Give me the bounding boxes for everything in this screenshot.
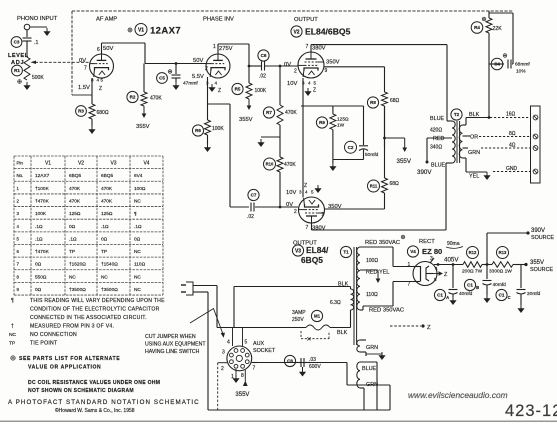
svg-text:BLK: BLK xyxy=(338,282,349,288)
svg-text:SOCKET: SOCKET xyxy=(253,348,276,354)
svg-text:.03: .03 xyxy=(309,357,316,363)
svg-text:3AMP: 3AMP xyxy=(292,310,306,316)
svg-text:420Ω: 420Ω xyxy=(430,128,442,134)
svg-text:†1620Ω: †1620Ω xyxy=(69,262,86,268)
svg-text:Z: Z xyxy=(99,86,102,92)
svg-text:AUX: AUX xyxy=(253,341,264,347)
svg-text:DC COIL RESISTANCE VALUES: DC COIL RESISTANCE VALUES UNDER ONE OHM xyxy=(28,380,160,386)
svg-text:CONNECTED IN THE ASSOCIATED CI: CONNECTED IN THE ASSOCIATED CIRCUIT. xyxy=(30,315,147,321)
svg-text:100Ω: 100Ω xyxy=(366,258,378,264)
svg-text:100K: 100K xyxy=(255,88,267,94)
svg-text:No.: No. xyxy=(17,173,24,178)
svg-text:2: 2 xyxy=(221,366,224,372)
svg-text:50V: 50V xyxy=(103,46,113,52)
svg-text:NC: NC xyxy=(69,274,76,280)
svg-text:EZ 80: EZ 80 xyxy=(422,247,442,256)
svg-text:10V: 10V xyxy=(287,81,297,87)
svg-text:TP: TP xyxy=(101,249,107,255)
svg-text:16Ω: 16Ω xyxy=(506,112,516,118)
svg-text:6BQ5: 6BQ5 xyxy=(101,173,114,179)
svg-text:R3: R3 xyxy=(78,109,84,114)
svg-text:©Howard W. Sams & Co., Inc. 19: ©Howard W. Sams & Co., Inc. 1958 xyxy=(55,407,135,414)
svg-text:355V: 355V xyxy=(239,117,253,123)
svg-text:B: B xyxy=(476,285,479,290)
svg-text:68Ω: 68Ω xyxy=(390,181,400,187)
svg-text:4: 4 xyxy=(305,190,308,195)
svg-text:22K: 22K xyxy=(493,26,503,32)
svg-text:20mfd: 20mfd xyxy=(527,291,541,297)
svg-text:OR: OR xyxy=(470,135,478,141)
svg-text:7: 7 xyxy=(253,366,256,372)
svg-text:C6: C6 xyxy=(261,53,267,58)
svg-text:Z: Z xyxy=(427,325,431,331)
svg-text:470K: 470K xyxy=(101,186,113,192)
svg-text:8Ω: 8Ω xyxy=(509,131,516,137)
svg-text:90ma: 90ma xyxy=(447,241,460,247)
svg-text:423-12: 423-12 xyxy=(505,402,557,420)
svg-text:0Ω: 0Ω xyxy=(35,287,42,293)
svg-text:NC: NC xyxy=(101,274,108,280)
svg-text:.1Ω: .1Ω xyxy=(69,236,77,242)
svg-text:BLUE: BLUE xyxy=(430,116,444,122)
svg-text:†470K: †470K xyxy=(35,199,50,205)
svg-text:10V: 10V xyxy=(286,190,296,196)
svg-text:†: † xyxy=(11,324,14,330)
svg-text:CONDITION OF THE ELECTROLYTIC: CONDITION OF THE ELECTROLYTIC CAPACITOR xyxy=(30,307,160,313)
svg-text:✕: ✕ xyxy=(307,336,312,343)
svg-text:100K: 100K xyxy=(212,126,224,132)
svg-text:GRN: GRN xyxy=(468,150,480,156)
svg-text:¶: ¶ xyxy=(11,298,14,304)
svg-text:TP: TP xyxy=(69,249,75,255)
svg-text:12AX7: 12AX7 xyxy=(150,26,181,37)
svg-text:.1Ω: .1Ω xyxy=(134,224,142,230)
svg-text:V4: V4 xyxy=(143,161,149,167)
svg-text:†1540Ω: †1540Ω xyxy=(101,262,118,268)
svg-text:2: 2 xyxy=(205,66,208,72)
svg-text:1: 1 xyxy=(408,262,411,268)
svg-text:3: 3 xyxy=(222,350,225,356)
svg-text:HAVING LINE SWITCH: HAVING LINE SWITCH xyxy=(145,349,200,355)
svg-text:470K: 470K xyxy=(69,186,81,192)
svg-text:4: 4 xyxy=(97,78,100,83)
svg-text:380V: 380V xyxy=(312,226,326,232)
svg-text:VALUE OR APPLICATION: VALUE OR APPLICATION xyxy=(28,365,101,371)
svg-text:R7: R7 xyxy=(266,110,272,115)
svg-text:A PHOTOFACT STANDARD NOTATI: A PHOTOFACT STANDARD NOTATION SCHEMATIC xyxy=(8,399,200,406)
svg-text:†470K: †470K xyxy=(35,249,50,255)
svg-text:680Ω: 680Ω xyxy=(97,110,109,116)
svg-text:8: 8 xyxy=(241,373,244,379)
svg-text:T1: T1 xyxy=(343,250,349,255)
svg-text:0V: 0V xyxy=(286,202,293,208)
svg-text:NC: NC xyxy=(134,287,141,293)
svg-text:.1Ω: .1Ω xyxy=(35,224,43,230)
svg-text:0Ω: 0Ω xyxy=(101,236,108,242)
svg-text:NO CONNECTION: NO CONNECTION xyxy=(30,332,77,338)
svg-text:3300Ω 1W: 3300Ω 1W xyxy=(489,269,512,275)
svg-text:GND: GND xyxy=(506,166,518,172)
svg-text:V2: V2 xyxy=(293,29,299,35)
svg-text:R11: R11 xyxy=(370,184,378,189)
svg-text:12AX7: 12AX7 xyxy=(35,173,50,179)
svg-text:BLK: BLK xyxy=(337,330,348,336)
svg-text:470K: 470K xyxy=(285,110,297,116)
svg-text:RED 350VAC: RED 350VAC xyxy=(365,240,400,246)
svg-text:275V: 275V xyxy=(219,46,233,52)
svg-text:R5: R5 xyxy=(235,87,241,92)
svg-text:EL84/6BQ5: EL84/6BQ5 xyxy=(305,27,351,37)
svg-text:5: 5 xyxy=(314,81,317,86)
svg-text:SOURCE: SOURCE xyxy=(531,235,554,241)
svg-text:10%: 10% xyxy=(516,69,526,75)
svg-text:5: 5 xyxy=(101,78,104,83)
svg-text:R1: R1 xyxy=(14,68,20,73)
svg-text:A: A xyxy=(446,295,449,300)
svg-text:SEE PARTS LIST FOR ALTERNA: SEE PARTS LIST FOR ALTERNATE xyxy=(19,356,120,362)
svg-text:TP: TP xyxy=(9,341,15,347)
svg-text:4: 4 xyxy=(435,266,438,271)
svg-text:LEVEL: LEVEL xyxy=(8,53,29,59)
svg-text:C1: C1 xyxy=(437,293,443,298)
svg-text:125Ω: 125Ω xyxy=(337,117,349,123)
svg-text:390V: 390V xyxy=(531,228,545,234)
svg-text:550Ω: 550Ω xyxy=(35,274,47,280)
svg-text:7: 7 xyxy=(84,66,87,72)
svg-text:40mfd: 40mfd xyxy=(493,282,507,288)
svg-text:5: 5 xyxy=(245,340,248,346)
svg-text:V4: V4 xyxy=(410,249,416,254)
svg-text:Z: Z xyxy=(218,88,221,94)
svg-text:6V4: 6V4 xyxy=(134,173,143,179)
svg-text:V1: V1 xyxy=(138,27,144,33)
svg-text:YEL: YEL xyxy=(469,174,479,180)
svg-text:Pin: Pin xyxy=(17,161,24,166)
svg-text:PHASE INV: PHASE INV xyxy=(203,17,234,23)
svg-text:405V: 405V xyxy=(444,257,459,264)
svg-text:C1: C1 xyxy=(499,293,505,298)
svg-text:R6: R6 xyxy=(195,128,201,133)
svg-text:BLUE: BLUE xyxy=(362,366,376,372)
svg-text:125Ω: 125Ω xyxy=(69,211,81,217)
svg-text:9: 9 xyxy=(325,68,328,74)
svg-text:5: 5 xyxy=(434,277,437,282)
svg-text:TIE POINT: TIE POINT xyxy=(30,341,58,347)
svg-text:50mfd: 50mfd xyxy=(365,152,379,158)
svg-text:R4: R4 xyxy=(474,25,480,30)
svg-text:Z: Z xyxy=(313,88,316,94)
svg-text:390V: 390V xyxy=(417,169,432,176)
svg-text:R8: R8 xyxy=(370,100,376,105)
svg-text:47mmf: 47mmf xyxy=(183,81,198,87)
svg-text:.1Ω: .1Ω xyxy=(101,224,109,230)
svg-text:4: 4 xyxy=(308,81,311,86)
svg-text:355V: 355V xyxy=(530,260,544,266)
svg-text:SOURCE: SOURCE xyxy=(530,267,553,273)
svg-text:125Ω: 125Ω xyxy=(101,211,113,217)
svg-text:C7: C7 xyxy=(251,193,257,198)
svg-text:C2: C2 xyxy=(348,145,354,150)
svg-text:†100K: †100K xyxy=(35,186,50,192)
svg-text:2: 2 xyxy=(294,69,297,75)
svg-text:R12: R12 xyxy=(469,250,477,255)
svg-text:C1: C1 xyxy=(467,283,473,288)
svg-text:†3500Ω: †3500Ω xyxy=(69,287,86,293)
svg-text:100K: 100K xyxy=(35,211,47,217)
svg-text:USING AUX EQUIPMENT: USING AUX EQUIPMENT xyxy=(145,342,206,348)
svg-text:7: 7 xyxy=(306,225,309,231)
svg-text:1W: 1W xyxy=(337,123,345,129)
svg-text:350V: 350V xyxy=(328,204,342,210)
svg-text:†3500Ω: †3500Ω xyxy=(101,287,118,293)
svg-text:600V: 600V xyxy=(309,364,321,370)
svg-text:0Ω: 0Ω xyxy=(69,224,76,230)
svg-text:.02: .02 xyxy=(259,74,266,80)
svg-text:6.3Ω: 6.3Ω xyxy=(330,300,341,306)
svg-text:BLUE: BLUE xyxy=(431,163,445,169)
svg-text:NOT SHOWN ON SCHEMATIC DIA: NOT SHOWN ON SCHEMATIC DIAGRAM xyxy=(28,388,134,394)
svg-text:.1: .1 xyxy=(34,40,38,46)
svg-text:3: 3 xyxy=(299,190,302,195)
svg-text:68mmf: 68mmf xyxy=(515,62,530,68)
svg-text:0Ω: 0Ω xyxy=(35,262,42,268)
svg-text:EL84/: EL84/ xyxy=(306,245,329,255)
svg-text:7: 7 xyxy=(408,282,411,288)
svg-text:THIS READING WILL VARY DEPENDI: THIS READING WILL VARY DEPENDING UPON TH… xyxy=(30,298,165,304)
svg-text:355V: 355V xyxy=(397,158,412,165)
svg-text:¶: ¶ xyxy=(134,211,137,217)
svg-text:RED 350VAC: RED 350VAC xyxy=(369,308,404,314)
svg-text:0V: 0V xyxy=(284,62,291,68)
svg-text:4: 4 xyxy=(227,340,230,346)
svg-text:C3: C3 xyxy=(14,40,20,45)
svg-text:68Ω: 68Ω xyxy=(390,98,400,104)
svg-text:470K: 470K xyxy=(150,96,162,102)
svg-text:OUTPUT: OUTPUT xyxy=(294,17,318,23)
svg-text:6BQ5: 6BQ5 xyxy=(69,173,82,179)
svg-text:V1: V1 xyxy=(45,161,51,167)
svg-text:C8: C8 xyxy=(287,359,293,364)
svg-text:C: C xyxy=(508,295,511,300)
svg-text:470K: 470K xyxy=(284,162,296,168)
svg-text:M1: M1 xyxy=(314,314,321,319)
svg-text:340Ω: 340Ω xyxy=(430,145,442,151)
svg-text:V2: V2 xyxy=(78,161,84,167)
svg-text:T2: T2 xyxy=(454,112,460,117)
svg-text:110Ω: 110Ω xyxy=(366,292,378,298)
svg-text:110Ω: 110Ω xyxy=(134,262,146,268)
svg-text:R10: R10 xyxy=(266,162,274,167)
svg-text:380V: 380V xyxy=(312,46,326,52)
svg-text:200Ω 7W: 200Ω 7W xyxy=(462,269,483,275)
svg-text:RECT: RECT xyxy=(419,239,435,245)
svg-text:8: 8 xyxy=(91,78,94,83)
svg-text:R13: R13 xyxy=(499,250,507,255)
svg-text:R9: R9 xyxy=(319,120,325,125)
svg-text:2: 2 xyxy=(294,209,297,215)
svg-text:NC: NC xyxy=(9,332,17,338)
svg-text:6BQ5: 6BQ5 xyxy=(301,255,323,265)
svg-text:250V: 250V xyxy=(292,317,304,323)
svg-text:470K: 470K xyxy=(101,199,113,205)
svg-text:355V: 355V xyxy=(136,124,150,130)
svg-text:PHONO INPUT: PHONO INPUT xyxy=(17,16,58,22)
svg-text:.02: .02 xyxy=(247,214,254,220)
svg-text:V3: V3 xyxy=(295,248,301,254)
svg-text:7: 7 xyxy=(306,44,309,50)
svg-text:500K: 500K xyxy=(32,75,44,81)
svg-text:350V: 350V xyxy=(326,60,340,66)
svg-text:C5: C5 xyxy=(159,76,165,81)
svg-text:1: 1 xyxy=(213,44,216,50)
svg-text:GRN: GRN xyxy=(366,345,378,351)
svg-text:5: 5 xyxy=(311,190,314,195)
svg-text:CUT JUMPER WHEN: CUT JUMPER WHEN xyxy=(145,334,196,340)
svg-text:.1Ω: .1Ω xyxy=(35,236,43,242)
svg-text:AF AMP: AF AMP xyxy=(96,17,117,23)
svg-text:4: 4 xyxy=(215,81,218,86)
svg-text:1.5V: 1.5V xyxy=(78,85,90,91)
svg-text:NC: NC xyxy=(134,249,141,255)
svg-text:V3: V3 xyxy=(110,161,116,167)
svg-text:Z: Z xyxy=(304,183,307,189)
svg-text:0V: 0V xyxy=(79,58,86,64)
svg-text:www.evilscienceaudio.com: www.evilscienceaudio.com xyxy=(408,390,508,400)
svg-text:100Ω: 100Ω xyxy=(134,186,146,192)
svg-text:NC: NC xyxy=(134,199,141,205)
svg-text:355V: 355V xyxy=(235,392,249,398)
svg-text:RED: RED xyxy=(433,136,444,142)
svg-text:0Ω: 0Ω xyxy=(134,236,141,242)
svg-text:40mfd: 40mfd xyxy=(459,291,473,297)
svg-text:MEASURED FROM PIN 3 OF V4.: MEASURED FROM PIN 3 OF V4. xyxy=(30,324,114,330)
svg-text:4Ω: 4Ω xyxy=(509,143,516,149)
svg-text:NC: NC xyxy=(134,274,141,280)
svg-text:50V: 50V xyxy=(193,58,203,64)
svg-text:5.5V: 5.5V xyxy=(192,74,204,80)
svg-text:R2: R2 xyxy=(130,95,136,100)
svg-text:BLK: BLK xyxy=(469,112,480,118)
svg-text:470K: 470K xyxy=(69,199,81,205)
svg-text:6: 6 xyxy=(97,47,100,53)
